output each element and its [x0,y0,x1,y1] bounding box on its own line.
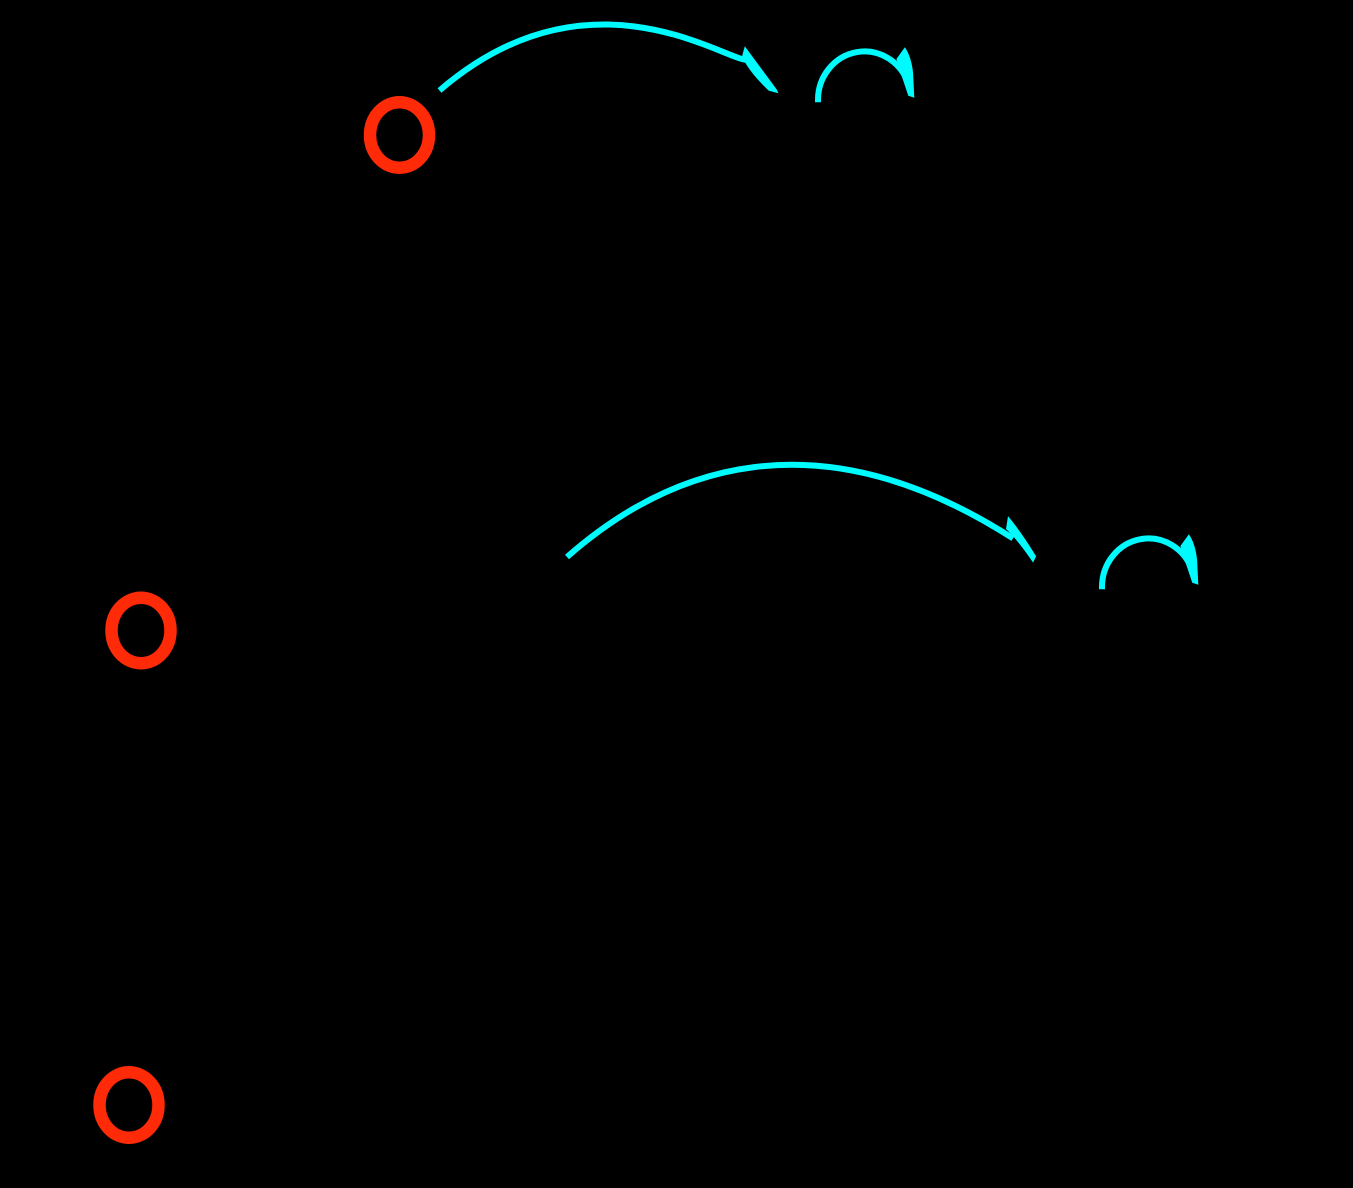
small cyclic arrow 1 (top right) [818,51,908,102]
arrowhead of curved arrow 2 [1006,516,1036,563]
arrowhead of curved arrow 1 [742,46,778,93]
oxygen atom O (top, carbonyl) [370,102,429,168]
oxygen atom O (bottom left) [100,1072,159,1138]
arrowhead of small cyclic arrow 1 [896,47,914,98]
curved electron-pushing arrow 2 (long arc, middle) [567,465,1013,557]
oxygen atom O (middle left) [112,598,171,664]
arrowhead of small cyclic arrow 2 [1180,534,1198,585]
curved electron-pushing arrow 1 (arc from top O) [440,24,749,90]
small cyclic arrow 2 (middle right) [1102,538,1192,589]
